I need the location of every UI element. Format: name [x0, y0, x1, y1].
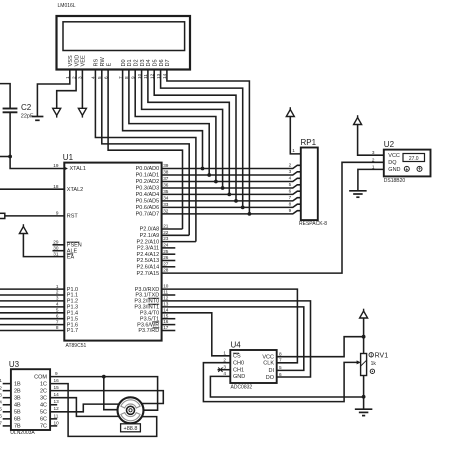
wire RV1 bottom to ground: [363, 376, 365, 410]
wire E to P2.0: [108, 70, 182, 230]
svg-text:AT89C51: AT89C51: [66, 343, 87, 349]
svg-text:1k: 1k: [371, 361, 377, 367]
svg-text:7: 7: [56, 319, 59, 324]
svg-text:P0.2/AD2: P0.2/AD2: [136, 179, 160, 185]
svg-text:P0.3/AD3: P0.3/AD3: [136, 186, 160, 192]
svg-text:RW: RW: [100, 57, 106, 67]
svg-text:5: 5: [289, 182, 292, 187]
svg-text:U3: U3: [9, 360, 20, 369]
svg-text:2: 2: [372, 157, 375, 162]
adc U4 ADC0832 body: [230, 350, 276, 383]
wire P1.1: [0, 294, 64, 296]
svg-text:21: 21: [163, 224, 169, 229]
pin stub P3.6: [162, 324, 176, 326]
svg-text:E: E: [106, 63, 112, 67]
svg-text:29: 29: [53, 240, 59, 245]
svg-text:12: 12: [163, 296, 169, 301]
LCD LM016L body: [57, 16, 191, 70]
svg-text:7: 7: [279, 358, 282, 363]
svg-text:14: 14: [163, 307, 169, 312]
svg-text:P0.7/AD7: P0.7/AD7: [136, 212, 160, 218]
svg-text:24: 24: [163, 243, 169, 248]
wire P2.7/A15 to U2 DQ: [162, 162, 384, 273]
svg-text:CH1: CH1: [233, 368, 244, 374]
svg-text:25: 25: [163, 249, 169, 254]
svg-text:P0.5/AD5: P0.5/AD5: [136, 199, 160, 205]
wire D1 to P0.1: [129, 70, 209, 176]
svg-text:8: 8: [279, 352, 282, 357]
svg-text:DS18B20: DS18B20: [384, 178, 406, 184]
svg-text:VDD: VDD: [74, 55, 80, 67]
svg-text:P2.4/A12: P2.4/A12: [137, 252, 160, 258]
wire P3.4/T0 to U4 CS: [162, 313, 231, 356]
pin stub ALE: [53, 250, 65, 252]
wire D7 to P0.7: [167, 70, 250, 214]
junction D5/P0.5: [234, 199, 238, 203]
svg-text:2: 2: [289, 163, 292, 168]
wire to crystal (off sheet): [0, 156, 10, 158]
pin stub 7B: [3, 425, 11, 427]
svg-text:2C: 2C: [40, 388, 47, 394]
svg-text:10: 10: [163, 284, 169, 289]
svg-text:22: 22: [163, 230, 169, 235]
svg-text:P2.2/A10: P2.2/A10: [137, 239, 160, 245]
wire D6 to P0.6: [161, 70, 243, 208]
junction D1/P0.1: [207, 173, 211, 177]
wire P1.2: [0, 300, 64, 302]
wire P0.4 to RP1 pin 6: [162, 191, 301, 194]
pin stub 3B: [3, 397, 11, 399]
svg-text:4C: 4C: [40, 403, 47, 409]
driver U3 ULN2003A body: [11, 369, 50, 430]
pin stub U4 CH1 (nc): [218, 369, 231, 371]
capacitor C2: [3, 108, 18, 110]
svg-text:2B: 2B: [14, 388, 21, 394]
motor upper pole: [121, 400, 140, 408]
wire P0.3 to RP1 pin 5: [162, 185, 301, 188]
pin stub 7C: [50, 425, 57, 427]
sensor U2 DS18B20 body: [384, 150, 431, 177]
svg-text:CLK: CLK: [263, 361, 274, 367]
svg-text:ULN2003A: ULN2003A: [10, 430, 35, 436]
ground (RV1): [355, 409, 373, 415]
svg-text:3B: 3B: [14, 396, 21, 402]
svg-text:12: 12: [54, 406, 60, 411]
wire VEE down: [81, 70, 83, 109]
wire RS to P2.2: [95, 70, 195, 242]
svg-text:2: 2: [223, 358, 226, 363]
pin stub PSEN: [53, 244, 65, 246]
pin stub 6C: [50, 418, 57, 420]
wire P0.2 to RP1 pin 4: [162, 178, 301, 181]
svg-text:RST: RST: [67, 214, 79, 220]
motor hub: [127, 406, 135, 414]
svg-text:31: 31: [53, 251, 59, 256]
wire RST: [5, 215, 65, 217]
wire P0.5 to RP1 pin 7: [162, 198, 301, 201]
pin stub P3.5: [162, 318, 176, 320]
pin stub P2.6: [162, 266, 176, 268]
wire P0.0 to RP1 pin 2: [162, 165, 301, 168]
wire P1.3: [0, 306, 64, 308]
wire 5C to motor upper-left: [50, 404, 119, 412]
RV1 adjust icon bottom: [370, 369, 374, 373]
svg-text:DI: DI: [269, 368, 275, 374]
svg-text:9: 9: [56, 211, 59, 216]
wire RP1 pin1 to power: [290, 117, 301, 154]
wire COM to motor right-middle: [50, 377, 158, 411]
wire XTAL2: [0, 188, 64, 190]
svg-text:D0: D0: [121, 59, 127, 66]
svg-text:10: 10: [54, 420, 60, 425]
svg-text:RV1: RV1: [375, 352, 389, 359]
svg-text:6B: 6B: [14, 417, 21, 423]
svg-text:4: 4: [289, 176, 292, 181]
svg-text:P2.7/A15: P2.7/A15: [137, 271, 160, 277]
junction RV1/VCC: [362, 335, 366, 339]
svg-text:+88.8: +88.8: [124, 426, 138, 432]
svg-text:6: 6: [289, 189, 292, 194]
wire P2.0/A8: [162, 228, 183, 230]
svg-text:C2: C2: [21, 103, 32, 112]
svg-text:VCC: VCC: [262, 355, 274, 361]
svg-text:1: 1: [223, 351, 226, 356]
svg-text:GND: GND: [388, 167, 400, 173]
svg-text:9: 9: [55, 371, 58, 376]
wire P3.2/INT0 to U4 DO: [162, 301, 311, 377]
wire P1.5: [0, 318, 64, 320]
wire P2.2/A10: [162, 241, 196, 243]
svg-text:1: 1: [292, 148, 295, 153]
wire D0 to P0.0: [123, 70, 203, 169]
power terminal (RP1): [286, 107, 294, 116]
U2 temperature display: [403, 154, 425, 162]
pin stub P3.1: [162, 294, 176, 296]
RV1 body: [361, 354, 367, 376]
wire VSS to ground: [37, 70, 69, 117]
wire U4 GND to ground rail: [210, 376, 363, 397]
svg-text:16: 16: [163, 319, 169, 324]
U2 down button: [404, 166, 409, 171]
wire U4 CH0 to RV1 wiper: [203, 362, 359, 401]
svg-text:CH0: CH0: [233, 361, 244, 367]
ground (U2): [349, 191, 367, 197]
pin stub 2B: [3, 390, 11, 392]
junction D3/P0.3: [221, 186, 225, 190]
svg-text:P2.5/A13: P2.5/A13: [137, 258, 160, 264]
svg-text:37: 37: [163, 176, 169, 181]
pin stub 4C: [50, 404, 57, 406]
svg-text:23: 23: [163, 236, 169, 241]
svg-text:7B: 7B: [14, 424, 21, 430]
svg-text:D4: D4: [146, 59, 152, 66]
svg-text:P2.1/A9: P2.1/A9: [140, 233, 160, 239]
svg-text:22pF: 22pF: [21, 113, 34, 119]
junction D6/P0.6: [241, 206, 245, 210]
svg-text:P0.4/AD4: P0.4/AD4: [136, 192, 160, 198]
svg-text:3: 3: [289, 169, 292, 174]
wire P0.7 to RP1 pin 9: [162, 211, 301, 214]
junction COM branch: [102, 375, 106, 379]
svg-text:1: 1: [56, 284, 59, 289]
pin stub 5B: [3, 411, 11, 413]
power terminal (U2 VCC): [354, 115, 362, 124]
svg-text:3: 3: [223, 365, 226, 370]
wire P3.3/INT1 to U4 DI: [162, 307, 304, 371]
svg-text:D2: D2: [133, 59, 139, 66]
RV1 adjust icon top: [369, 353, 373, 357]
svg-text:6: 6: [279, 372, 282, 377]
no-connect cross CH1: [218, 368, 222, 372]
resistor pack RP1 body: [301, 148, 318, 221]
wire P3.0/RXD to U4 CLK: [162, 289, 298, 363]
wire D3 to P0.3: [142, 70, 223, 189]
wire P0.1 to RP1 pin 3: [162, 172, 301, 175]
svg-text:ADC0832: ADC0832: [231, 385, 253, 391]
svg-text:14: 14: [54, 392, 60, 397]
svg-text:P3.7/RD: P3.7/RD: [138, 328, 159, 334]
svg-text:U2: U2: [384, 140, 395, 149]
svg-text:6: 6: [56, 313, 59, 318]
svg-text:CS: CS: [233, 354, 241, 360]
junction D0/P0.0: [201, 167, 205, 171]
svg-text:38: 38: [163, 170, 169, 175]
pin stub 6B: [3, 418, 11, 420]
wire 3C to motor lower-left: [50, 398, 119, 417]
svg-text:13: 13: [163, 302, 169, 307]
svg-text:1B: 1B: [14, 381, 21, 387]
svg-text:D5: D5: [152, 59, 158, 66]
svg-text:9: 9: [289, 208, 292, 213]
wire 2C to motor upper-right: [50, 391, 163, 404]
junction D2/P0.2: [214, 180, 218, 184]
svg-text:26: 26: [163, 255, 169, 260]
motor rpm display: [121, 424, 141, 432]
svg-text:11: 11: [54, 413, 59, 418]
svg-text:13: 13: [54, 399, 60, 404]
junction RV1 bottom/GND rail: [362, 395, 366, 399]
svg-text:19: 19: [53, 163, 59, 168]
svg-text:VSS: VSS: [68, 55, 74, 66]
svg-text:U4: U4: [231, 341, 242, 350]
svg-text:36: 36: [163, 183, 169, 188]
svg-text:GND: GND: [233, 374, 245, 380]
wire U2 VCC to power: [358, 125, 384, 156]
svg-text:32: 32: [163, 209, 169, 214]
power terminal (RV1): [360, 309, 368, 318]
svg-text:28: 28: [163, 268, 169, 273]
ground arrow (VEE): [78, 108, 86, 117]
wire D4 to P0.4: [148, 70, 229, 195]
svg-text:P0.1/AD1: P0.1/AD1: [136, 173, 160, 179]
svg-text:P2.6/A14: P2.6/A14: [137, 265, 160, 271]
wire power to RV1 top: [363, 318, 365, 354]
svg-text:15: 15: [163, 313, 169, 318]
pin stub 1B: [3, 383, 11, 385]
wire P1.7: [0, 330, 64, 332]
wire U4 VCC to power: [277, 337, 364, 357]
svg-text:P2.3/A11: P2.3/A11: [137, 246, 159, 252]
svg-text:D1: D1: [127, 59, 133, 66]
svg-text:DQ: DQ: [388, 160, 397, 166]
svg-text:8: 8: [56, 325, 59, 330]
pin stub P2.5: [162, 260, 176, 262]
svg-text:VEE: VEE: [81, 55, 87, 66]
wire P1.0: [0, 288, 64, 290]
svg-text:DO: DO: [266, 375, 275, 381]
ground arrow (VDD): [53, 108, 61, 117]
RV1 wiper arrowhead: [357, 360, 361, 364]
U2 up button: [417, 166, 422, 171]
svg-text:5C: 5C: [40, 410, 47, 416]
wire P2.1/A9: [162, 234, 190, 236]
pin stub P3.7: [162, 330, 176, 332]
svg-text:15: 15: [54, 385, 60, 390]
wire EA to power: [23, 234, 64, 257]
junction node XTAL1: [8, 155, 12, 159]
svg-text:2: 2: [56, 290, 59, 295]
svg-text:27.0: 27.0: [409, 156, 419, 162]
XTAL1 pin marker: [64, 167, 68, 171]
junction D4/P0.4: [227, 193, 231, 197]
motor lower pole: [121, 413, 140, 421]
wire P1.6: [0, 324, 64, 326]
reset network box (cut off): [0, 213, 5, 218]
svg-text:1C: 1C: [40, 381, 47, 387]
svg-text:P1.7: P1.7: [67, 328, 78, 334]
svg-text:30: 30: [53, 245, 59, 250]
svg-text:34: 34: [163, 196, 169, 201]
wire D5 to P0.5: [154, 70, 236, 201]
svg-text:LM016L: LM016L: [58, 3, 76, 9]
svg-text:3C: 3C: [40, 396, 47, 402]
wire COM branch to motor left-middle: [104, 377, 118, 410]
svg-text:P0.6/AD6: P0.6/AD6: [136, 205, 160, 211]
svg-text:COM: COM: [34, 374, 47, 380]
RV1 element slash: [360, 360, 367, 367]
U1 AT89C51 body: [64, 163, 161, 341]
svg-text:16: 16: [54, 378, 60, 383]
wire 1C to motor lower-right (via bottom): [50, 384, 157, 437]
svg-text:8: 8: [289, 202, 292, 207]
svg-text:RP1: RP1: [301, 138, 317, 147]
wire VDD down: [57, 70, 76, 109]
svg-text:D7: D7: [165, 59, 171, 66]
pin stub P2.4: [162, 253, 176, 255]
svg-text:5: 5: [279, 365, 282, 370]
motor (stepper): [118, 397, 144, 423]
wire P0.6 to RP1 pin 8: [162, 204, 301, 207]
svg-text:7C: 7C: [40, 424, 47, 430]
wire P1.4: [0, 312, 64, 314]
svg-text:XTAL2: XTAL2: [67, 187, 83, 193]
pin stub P2.3: [162, 247, 176, 249]
svg-text:17: 17: [163, 325, 169, 330]
svg-text:RESPACK-8: RESPACK-8: [299, 221, 327, 227]
LCD display window: [63, 22, 185, 51]
svg-text:39: 39: [163, 163, 169, 168]
svg-text:P0.0/AD0: P0.0/AD0: [136, 166, 160, 172]
svg-text:27: 27: [163, 261, 169, 266]
wire C2 to XTAL1: [10, 112, 64, 168]
svg-text:4: 4: [56, 302, 59, 307]
svg-text:33: 33: [163, 202, 169, 207]
wire D2 to P0.2: [135, 70, 216, 182]
wire RW to P2.1: [102, 70, 189, 236]
svg-text:35: 35: [163, 189, 169, 194]
pin stub 4B: [3, 404, 11, 406]
svg-text:RS: RS: [94, 58, 100, 66]
svg-text:D3: D3: [140, 59, 146, 66]
svg-text:4: 4: [223, 371, 226, 376]
svg-text:18: 18: [53, 184, 59, 189]
svg-text:VCC: VCC: [388, 153, 400, 159]
svg-text:3: 3: [56, 296, 59, 301]
svg-text:U1: U1: [63, 153, 74, 162]
svg-text:6C: 6C: [40, 417, 47, 423]
svg-text:11: 11: [163, 290, 168, 295]
svg-text:D6: D6: [159, 59, 165, 66]
ground (VSS): [31, 117, 43, 121]
wire U2 GND to ground: [358, 169, 384, 190]
svg-text:5B: 5B: [14, 410, 21, 416]
svg-text:4B: 4B: [14, 403, 21, 409]
svg-text:7: 7: [289, 195, 292, 200]
svg-text:XTAL1: XTAL1: [70, 166, 86, 172]
svg-text:5: 5: [56, 308, 59, 313]
svg-text:EA: EA: [67, 254, 75, 260]
junction D7/P0.7: [248, 212, 252, 216]
svg-text:P2.0/A8: P2.0/A8: [140, 227, 160, 233]
wire crystal top to C2: [0, 84, 10, 109]
power terminal (EA): [19, 224, 27, 233]
